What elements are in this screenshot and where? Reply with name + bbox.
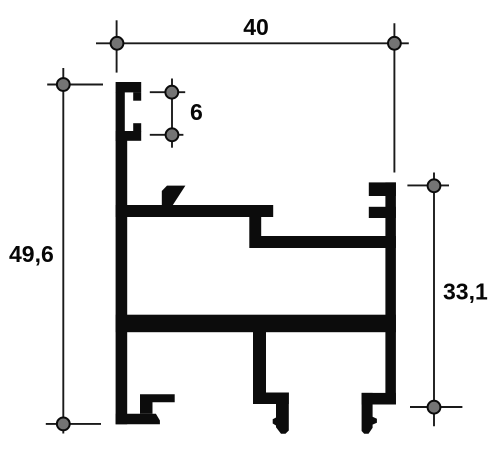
profile gasket nub — [162, 186, 186, 206]
dimension 6 vertical line — [171, 79, 173, 148]
profile bottom-left foot strip — [116, 414, 160, 425]
profile lower step flange — [250, 236, 396, 248]
marker 49,6 bottom — [57, 418, 70, 431]
profile middle foot drop with barb — [273, 393, 289, 434]
dimension 49,6 bottom tick — [46, 423, 101, 425]
profile right foot drop with barb — [362, 393, 377, 434]
profile step web — [249, 217, 261, 248]
profile upper flange — [116, 205, 274, 217]
profile top glazing-groove top arm — [116, 82, 142, 92]
dimension 6 top tick — [150, 91, 185, 93]
marker 33,1 top — [428, 179, 441, 192]
marker 40 left — [111, 37, 124, 50]
dimension 6 bottom tick — [150, 134, 184, 136]
marker 49,6 top — [57, 78, 70, 91]
dimension 40 left extension tick — [116, 20, 118, 72]
marker 33,1 bottom — [428, 401, 441, 414]
profile upper narrow wall — [116, 92, 125, 141]
profile middle foot stem — [253, 332, 266, 405]
profile right wall — [385, 182, 396, 404]
marker 6 top — [165, 86, 178, 99]
dimension 33,1 top tick — [407, 184, 449, 186]
svg-text:33,1: 33,1 — [443, 279, 488, 305]
dimension 33,1 vertical line — [433, 173, 435, 427]
dimension 49,6 vertical line — [62, 68, 64, 434]
dimension 40 right extension line — [393, 23, 395, 172]
dimension 33,1 bottom tick — [410, 406, 462, 408]
profile top groove down-hook — [133, 92, 141, 100]
svg-text:49,6: 49,6 — [9, 241, 54, 267]
profile right groove middle arm — [369, 207, 396, 218]
profile top groove bottom arm — [116, 131, 142, 141]
profile top groove up-hook — [133, 123, 141, 131]
profile bottom-left hook — [140, 394, 175, 413]
profile bottom horizontal bar — [116, 315, 396, 333]
marker 40 right — [388, 37, 401, 50]
profile left main wall — [116, 140, 128, 424]
profile right foot arm — [362, 393, 396, 405]
svg-text:6: 6 — [190, 99, 203, 125]
svg-text:40: 40 — [243, 14, 269, 40]
marker 6 bottom — [166, 128, 179, 141]
dimension 49,6 top tick — [47, 84, 103, 86]
profile right groove top arm — [369, 182, 396, 196]
dimension 40 horizontal line — [96, 42, 409, 44]
profile middle foot step — [254, 393, 289, 405]
